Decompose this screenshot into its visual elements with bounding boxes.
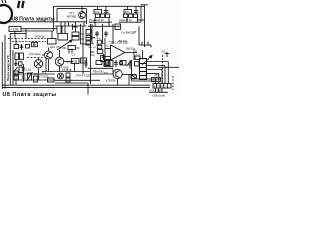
svg-text:ВД: ВД [133,49,137,53]
svg-text:Левый вх: Левый вх [119,18,132,22]
svg-text:ВУЗ: ВУЗ [104,72,109,74]
svg-text:4,7к: 4,7к [136,54,140,56]
svg-text:ВУ1 ОУ: ВУ1 ОУ [89,47,97,49]
svg-text:РПА-3к: РПА-3к [35,34,45,38]
svg-text:ЗОВ: ЗОВ [72,60,77,63]
svg-text:+СВ 3г: +СВ 3г [94,38,101,40]
svg-text:ДА1 К140УД6: ДА1 К140УД6 [111,40,128,44]
svg-text:ЛК: ЛК [76,46,80,50]
svg-text:ПВ КУ81: ПВ КУ81 [93,70,104,74]
svg-text:вч: вч [103,43,105,45]
svg-text:С5 а: С5 а [90,52,95,54]
svg-text:1,5к: 1,5к [26,67,32,71]
svg-text:1 2 3 4 5: 1 2 3 4 5 [154,84,165,88]
svg-text:VT1: VT1 [69,11,74,15]
svg-text:ДТ: ДТ [15,71,19,75]
svg-text:2х4,7Ком: 2х4,7Ком [29,52,41,56]
svg-text:+15В (стаб): +15В (стаб) [152,94,165,97]
svg-text:КТ361В: КТ361В [62,68,72,72]
svg-text:С1: С1 [72,52,76,56]
svg-text:10н: 10н [34,72,39,76]
svg-text:ДА1 (Лт): ДА1 (Лт) [50,45,61,49]
svg-text:МП39Б: МП39Б [67,15,76,19]
svg-text:АД1: АД1 [152,78,158,82]
svg-text:ТЗ: ТЗ [162,50,166,54]
svg-text:8кО: 8кО [125,10,130,14]
svg-text:10К: 10К [80,32,85,36]
svg-text:1мк: 1мк [106,46,110,48]
svg-text:24к: 24к [105,64,108,66]
svg-text:Плата защиты У8: Плата защиты У8 [6,55,10,81]
svg-text:КТ315А: КТ315А [39,74,49,78]
svg-text:Правый вх: Правый вх [89,18,104,22]
svg-text:10м: 10м [81,60,86,63]
svg-text:М: М [92,43,94,45]
svg-text:10К: 10К [95,10,100,14]
svg-text:70К: 70К [62,46,67,50]
svg-text:VТ3: VТ3 [67,60,72,64]
svg-text:мк: мк [134,31,137,33]
svg-text:(А6): (А6) [90,54,95,57]
svg-text:УВ: УВ [15,76,19,80]
svg-text:КТЛ-КТ315Б: КТЛ-КТ315Б [76,74,91,78]
svg-text:+12В: +12В [11,27,20,31]
svg-text:VТ1: VТ1 [41,70,46,74]
svg-text:НО: НО [80,37,84,41]
svg-text:U8 Плата защиты: U8 Плата защиты [12,17,55,23]
svg-text:РСА К ВЫХ: РСА К ВЫХ [150,90,163,93]
svg-text:U8 Плата защиты: U8 Плата защиты [3,92,57,97]
svg-text:КТ815А: КТ815А [106,79,116,83]
